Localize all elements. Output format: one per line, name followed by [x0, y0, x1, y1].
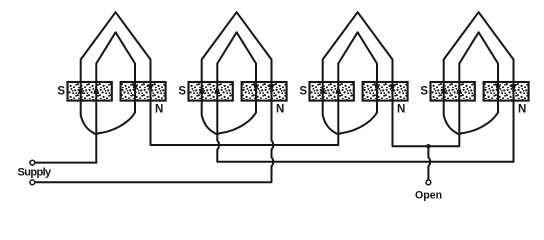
- svg-text:N: N: [155, 103, 163, 115]
- pole piece N3 (right, stippled): [363, 82, 408, 101]
- pole piece S3 (left, stippled): [310, 82, 354, 101]
- pole piece S2 (left, stippled): [189, 82, 233, 101]
- svg-text:N: N: [276, 103, 284, 115]
- pole piece S4 (left, stippled): [431, 82, 475, 101]
- wire H2: coil 2 start lead down (jog over H1) and east to coil 4 finish (L4): [217, 101, 513, 162]
- current-direction arrows in pole N4 (down): [495, 84, 501, 92]
- wire: coil 1 start lead down to supply positive terminal: [35, 134, 97, 163]
- terminal circle: supply positive: [30, 160, 35, 165]
- svg-text:Supply: Supply: [18, 167, 53, 179]
- svg-text:N: N: [518, 103, 526, 115]
- current-direction arrows in pole S3 (up): [320, 86, 326, 94]
- wire H1: coil 1 finish (L4) down and east to coil 3 start: [151, 101, 339, 145]
- svg-text:N: N: [397, 103, 405, 115]
- svg-text:S: S: [299, 86, 307, 98]
- svg-text:S: S: [178, 86, 186, 98]
- terminal circle: supply negative: [30, 180, 35, 185]
- wire: open-circuit tap lead down (jog over H2) to open terminal: [428, 146, 430, 180]
- coil 4 winding (two nested turns with end connection): [444, 12, 514, 135]
- current-direction arrows in pole S2 (up): [199, 86, 205, 94]
- pole piece N4 (right, stippled): [484, 82, 529, 101]
- pole piece S1 (left, stippled): [68, 82, 112, 101]
- svg-text:Open: Open: [415, 189, 442, 201]
- coil 2 winding (two nested turns with end connection): [202, 12, 272, 135]
- coil 3 winding (two nested turns with end connection): [323, 12, 393, 135]
- svg-text:S: S: [57, 86, 65, 98]
- wire H1b: coil 3 finish (L4) down and east to coil 4 start: [393, 101, 460, 146]
- current-direction arrows in pole N2 (down): [253, 84, 259, 92]
- pole piece N1 (right, stippled): [121, 82, 166, 101]
- current-direction arrows in pole N1 (down): [132, 84, 138, 92]
- wire bottom bus: coil 2 finish (L4) down (jogs over H1 and H2) west to supply negative terminal: [35, 101, 273, 182]
- current-direction arrows in pole N3 (down): [374, 84, 380, 92]
- current-direction arrows in pole S1 (up): [78, 86, 84, 94]
- terminal circle: open point: [426, 180, 431, 185]
- svg-text:S: S: [420, 86, 428, 98]
- pole piece N2 (right, stippled): [242, 82, 287, 101]
- coil 1 winding (two nested turns with end connection): [81, 12, 151, 135]
- junction dot on H1b (tap point): [426, 144, 431, 149]
- current-direction arrows in pole S4 (up): [441, 86, 447, 94]
